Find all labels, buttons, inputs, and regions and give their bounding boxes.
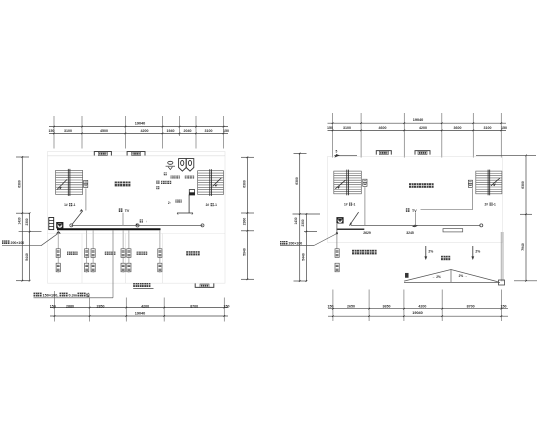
svg-text:5440: 5440 — [25, 253, 29, 261]
svg-text:3245: 3245 — [406, 231, 414, 235]
svg-text:150×100,: 150×100, — [43, 294, 59, 298]
TV/YD socket column 6 left plan — [158, 249, 162, 272]
window tag C-1 left plan top wall A — [94, 152, 111, 156]
svg-text:19040: 19040 — [135, 311, 146, 315]
svg-text:1#: 1# — [344, 203, 348, 207]
svg-text:19040: 19040 — [412, 311, 423, 315]
speaker flag symbol on pole — [177, 190, 195, 215]
svg-text:2300: 2300 — [301, 219, 305, 226]
svg-text:19040: 19040 — [135, 121, 146, 125]
svg-text:150: 150 — [223, 129, 229, 133]
room label 办公室 (office) 3 — [137, 252, 148, 255]
T8 lamp label stair1 left plan — [84, 180, 88, 187]
legend small glyph row 2 — [156, 181, 159, 184]
svg-text:2% →: 2% → — [459, 274, 468, 278]
svg-text:200×100: 200×100 — [289, 242, 303, 246]
striped panel symbol AL — [49, 218, 54, 230]
right plan bottom grid line stubs — [332, 290, 334, 322]
room label 办公室 (office) 2 — [105, 252, 116, 255]
svg-text:0.3m: 0.3m — [69, 294, 78, 298]
staircase 2# left plan — [198, 169, 224, 196]
faint partition wall office2/3 — [125, 234, 127, 284]
svg-text:5440: 5440 — [301, 253, 305, 261]
staircase 2# right plan — [476, 170, 502, 196]
left plan faint top wall inner line — [48, 155, 226, 157]
annotation 桥架150×100,本层0.3m敷设 (underlined) — [34, 293, 42, 297]
right plan top wall line segment left — [334, 155, 357, 157]
left plan top grid line stubs — [53, 116, 55, 149]
left plan right vertical dim line — [246, 157, 248, 279]
label 上2F near pole — [175, 200, 181, 203]
annotation 桥架200×100 between plans — [280, 241, 288, 245]
staircase 1# right plan — [334, 170, 362, 196]
cable tray thick bus line — [57, 228, 161, 230]
legend caption 配电箱 — [171, 176, 180, 179]
faint corridor lower wall left plan — [48, 233, 226, 235]
tiny label above junction B — [140, 219, 143, 222]
vertical from junction dot to socket column — [336, 233, 338, 249]
left plan top segment dimension line — [49, 132, 228, 134]
right plan right vertical dim line — [525, 155, 527, 280]
legend small glyph left of captions — [164, 172, 167, 175]
right plan top grid line stubs — [332, 113, 334, 158]
svg-text:3100: 3100 — [484, 126, 492, 130]
svg-text:1430: 1430 — [294, 217, 298, 224]
solid triangle junction below box — [56, 231, 61, 234]
left plan bottom overall dimension line — [50, 315, 228, 317]
faint partition wall office3/meeting — [162, 234, 164, 284]
room label 会议室 (meeting room) lower right — [186, 251, 200, 255]
left plan left vertical dim line outer — [21, 157, 23, 281]
main corridor wire right plan — [351, 224, 481, 226]
drop from 加TV label to main wire — [415, 212, 417, 225]
window tag C-1 left plan top wall B — [127, 152, 145, 156]
legend: banner box 0 (left) — [179, 159, 187, 172]
right plan left vertical dim line outer — [299, 154, 301, 282]
svg-text:3100: 3100 — [205, 129, 213, 133]
svg-text:-1: -1 — [73, 203, 76, 207]
TV/YD socket column 1 left plan — [56, 249, 60, 272]
leader to annotation 桥架200×100 — [280, 245, 314, 247]
svg-text:2↑: 2↑ — [168, 201, 172, 205]
svg-text:TV: TV — [125, 209, 130, 213]
leader line to cable tray annotation — [2, 245, 41, 247]
vertical drop wires from cable tray — [57, 230, 59, 272]
label 加TV above corridor wire — [119, 208, 123, 212]
svg-text:2#: 2# — [206, 203, 210, 207]
right plan top overall dimension line — [328, 122, 507, 124]
faint partition wall office1/2 — [81, 234, 83, 284]
end circle on main wire — [480, 224, 483, 227]
staircase 1# left plan — [56, 169, 83, 196]
drop from 加TV to wire — [122, 213, 124, 226]
label 加TV on L wire left end — [406, 208, 410, 212]
svg-text:4600: 4600 — [379, 126, 387, 130]
svg-text:-1: -1 — [493, 203, 496, 207]
rectangular fitting on wire — [443, 229, 463, 232]
svg-text:3100: 3100 — [64, 129, 72, 133]
terrace roof ridge triangle — [404, 270, 500, 283]
svg-text:2300: 2300 — [243, 218, 247, 226]
TV/YD socket column 3 left plan — [91, 249, 95, 272]
svg-text:1430: 1430 — [18, 217, 22, 224]
right plan top wall line segment right (to dim) — [476, 155, 536, 157]
svg-text:19040: 19040 — [413, 118, 424, 122]
TV/YD socket column 4 left plan — [121, 249, 125, 272]
svg-text:2650: 2650 — [347, 305, 355, 309]
svg-text:2%: 2% — [428, 250, 433, 254]
vertical from box down to junction dot — [336, 224, 338, 233]
arrow wire from box to main wire — [349, 212, 358, 226]
svg-text:150: 150 — [501, 126, 507, 130]
left plan faint wall outline — [48, 152, 226, 284]
TV/YD socket column 2 left plan — [85, 249, 89, 272]
svg-text:2040: 2040 — [184, 129, 192, 133]
svg-text:← 2%: ← 2% — [432, 275, 441, 279]
right plan left vertical dim line inner — [305, 214, 307, 281]
legend small glyph row 3 — [156, 186, 159, 189]
svg-text:5: 5 — [336, 150, 338, 154]
svg-text:6300: 6300 — [295, 177, 299, 185]
right plan bottom segment dimension line — [328, 308, 508, 310]
window tag right plan top A — [376, 151, 391, 155]
svg-text:2850: 2850 — [97, 304, 105, 308]
svg-text:-1: -1 — [353, 203, 356, 207]
svg-text:3650: 3650 — [383, 305, 391, 309]
junction dot — [336, 232, 338, 234]
svg-text:2300: 2300 — [25, 218, 29, 225]
corner box at wall bottom — [499, 280, 505, 285]
room label 办公室 (office) 1 — [67, 252, 78, 255]
terrace slope arrow right — [472, 246, 474, 258]
svg-text:150: 150 — [50, 304, 56, 308]
corridor wire (thin) — [71, 224, 202, 226]
svg-text:5940: 5940 — [243, 248, 247, 256]
svg-text:2880: 2880 — [66, 304, 74, 308]
vertical wire from T8 stair1 down to corridor wire — [364, 187, 366, 225]
underlined label 阅览室吸顶灯 bottom middle — [133, 283, 150, 287]
svg-text:2%: 2% — [475, 250, 480, 254]
wall double line right side of terrace — [500, 232, 502, 281]
svg-text:TV: TV — [412, 209, 417, 213]
svg-text:4200: 4200 — [419, 126, 427, 130]
T8 label stair1 right plan — [363, 179, 367, 186]
TV/YD socket column 5 left plan — [127, 249, 131, 272]
right plan top segment dimension line — [328, 129, 507, 131]
TV/YD socket column right plan — [335, 249, 339, 272]
window tag right plan top B — [415, 151, 430, 155]
room label 文体活动室 (activity room) — [409, 183, 434, 188]
room label 会议室 (meeting room) upper — [115, 182, 131, 187]
svg-text:2629: 2629 — [363, 231, 371, 235]
svg-text:150: 150 — [327, 126, 333, 130]
vertical wire stair1 T8 to arrow — [85, 189, 87, 211]
junction circle C (right end) — [201, 224, 204, 227]
svg-text:设: 设 — [86, 293, 90, 298]
corner arrow mark at right plan top-left — [334, 154, 339, 158]
junction circle B (with dark fill) — [136, 224, 139, 227]
distribution box 2AL-1 (dark symbol) — [56, 222, 63, 228]
left plan top overall dimension line — [49, 126, 228, 128]
svg-text:200×100: 200×100 — [11, 241, 25, 245]
terrace slope arrow left — [425, 246, 427, 258]
distribution box 2AL-1 right plan — [336, 217, 343, 223]
svg-text:1940: 1940 — [167, 129, 175, 133]
left plan bottom segment dimension line — [50, 307, 228, 309]
svg-text:7940: 7940 — [521, 243, 525, 251]
svg-text:150: 150 — [49, 129, 55, 133]
left plan bottom grid line stubs — [54, 291, 56, 322]
svg-text:4500: 4500 — [100, 129, 108, 133]
svg-text:-1: -1 — [214, 203, 217, 207]
legend caption 多媒体箱 — [185, 176, 194, 179]
svg-text:6300: 6300 — [18, 180, 22, 188]
right plan faint wall outline — [328, 157, 503, 243]
legend: speaker oval symbol — [168, 161, 173, 164]
svg-text:4200: 4200 — [418, 305, 426, 309]
thick tray segment right plan — [336, 228, 364, 230]
window tag bottom wall left plan — [195, 283, 214, 287]
annotation 桥架200×100 (left margin) — [2, 240, 10, 244]
room label 图书阅览室 (reading room) — [352, 250, 377, 255]
svg-text:6300: 6300 — [243, 180, 247, 188]
leader from bottom annotation up to tray — [112, 230, 114, 297]
label 露台 (terrace) — [441, 256, 450, 260]
junction marks on wire at drop — [412, 225, 418, 228]
svg-text:4200: 4200 — [141, 129, 149, 133]
junction circle A — [70, 224, 73, 227]
L wire from stair2 T8 down-left — [472, 188, 474, 210]
svg-text:150: 150 — [328, 305, 334, 309]
svg-text:3600: 3600 — [454, 126, 462, 130]
svg-text:150: 150 — [224, 304, 230, 308]
svg-text:2#: 2# — [485, 203, 489, 207]
svg-text:6300: 6300 — [521, 181, 525, 189]
arrow wire from junction A up to stair — [72, 211, 83, 224]
rain drain box at triangle left corner — [405, 273, 408, 277]
svg-text:3100: 3100 — [343, 126, 351, 130]
T8 label stair2 right plan — [468, 180, 472, 187]
svg-text:8700: 8700 — [467, 305, 475, 309]
right plan bottom overall dimension line — [328, 315, 508, 317]
svg-text:1#: 1# — [64, 203, 68, 207]
svg-text:8700: 8700 — [190, 304, 198, 308]
svg-text:150: 150 — [501, 305, 507, 309]
svg-text:4200: 4200 — [141, 304, 149, 308]
legend: banner box 0 (right) — [186, 159, 194, 172]
right plan wide dim tick — [293, 213, 321, 215]
left plan left vertical dim line inner chain — [29, 213, 31, 281]
